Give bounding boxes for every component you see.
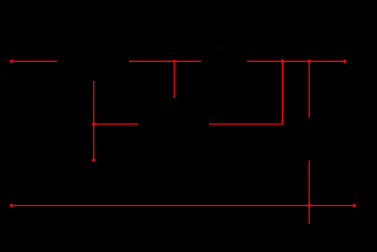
svg-text:(xv): (xv) xyxy=(350,70,360,76)
potentiometer R1 body xyxy=(57,58,129,82)
wire top rail segment A xyxy=(12,60,58,62)
endpoint node bottom-right xyxy=(352,203,356,207)
junction node rail/R2 wiper xyxy=(172,59,176,63)
endpoint node top-right xyxy=(343,59,347,63)
junction node rail/C1 xyxy=(307,59,312,64)
junction node bottom rail/ground xyxy=(307,203,312,208)
svg-text:X5g: X5g xyxy=(218,47,227,52)
svg-text:(x?): (x?) xyxy=(166,134,176,139)
wire R1 junction to R2 left pin xyxy=(94,123,139,125)
junction node rail/R2 right xyxy=(280,59,285,64)
junction node R1 wiper/R2 left xyxy=(91,122,96,127)
svg-text:K?: K? xyxy=(319,136,325,141)
inductor L1 body xyxy=(201,58,247,62)
wire R2 right pin to rail xyxy=(209,61,282,124)
wire R2 wiper riser xyxy=(173,61,175,98)
svg-text:LXHJ-: LXHJ- xyxy=(0,81,21,88)
wire top rail segment B xyxy=(129,60,201,62)
svg-text:FB?.?: FB?.? xyxy=(85,45,99,50)
wire C1 bottom to ground xyxy=(308,161,310,225)
connector J1 pin stub (dark) xyxy=(3,60,10,62)
wire bottom rail xyxy=(12,205,355,207)
endpoint node R1 drop end xyxy=(92,158,96,162)
wire R1 wiper drop xyxy=(93,81,95,160)
ground symbol xyxy=(303,226,315,229)
wire rail to C1 top xyxy=(308,61,310,118)
wire top rail segment C xyxy=(247,60,345,62)
svg-text:?-: ?- xyxy=(356,217,361,223)
endpoint node bottom-left xyxy=(9,203,13,207)
svg-text:(x)j: (x)j xyxy=(85,52,93,57)
potentiometer R2 body xyxy=(138,98,209,128)
capacitor C1 body xyxy=(302,117,316,161)
endpoint node top-left xyxy=(9,59,13,63)
svg-text:LX.y: LX.y xyxy=(356,212,366,218)
svg-text:TOUT: TOUT xyxy=(0,73,21,80)
